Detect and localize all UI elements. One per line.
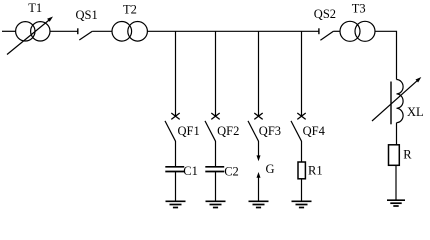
svg-text:R1: R1 (308, 163, 323, 177)
bus wire T2 to QS2 (147, 30, 319, 32)
disconnector QS2 (319, 28, 334, 40)
transformer T1 (7, 17, 53, 55)
breaker QF2 (205, 113, 220, 141)
spark gap G down arrow (257, 155, 261, 161)
wire: branch 1 drop (175, 31, 177, 116)
svg-text:XL: XL (407, 105, 424, 119)
resistor R1 (298, 162, 305, 179)
svg-text:G: G (266, 162, 275, 176)
wire: QF2 to C2 (215, 141, 217, 167)
breaker QF1 (165, 113, 180, 141)
spark gap G up arrow (257, 172, 261, 178)
transformer T3 (340, 21, 375, 41)
transformer T2 (112, 22, 147, 42)
wire: QS2 to T3 (333, 30, 340, 32)
wire: R1 to ground (301, 179, 303, 201)
ground (branch 3) (249, 201, 269, 207)
wire: XL to R (396, 123, 398, 145)
wire: C1 to ground (175, 172, 177, 201)
wire: branch 4 drop (301, 31, 303, 116)
svg-text:T3: T3 (352, 2, 366, 16)
ground (branch 2) (206, 201, 226, 207)
svg-text:C1: C1 (183, 164, 198, 178)
ground (right) (387, 200, 405, 206)
svg-text:QF4: QF4 (303, 124, 326, 138)
ground (branch 4) (292, 201, 312, 207)
capacitor C2 (205, 167, 224, 172)
svg-text:QF1: QF1 (178, 124, 200, 138)
wire: T1 to QS1 (50, 30, 78, 32)
breaker QF4 (291, 113, 306, 141)
wire: C2 to ground (215, 172, 217, 201)
ground (branch 1) (166, 201, 186, 207)
svg-text:QF2: QF2 (217, 124, 239, 138)
wire: QS1 to T2 (92, 30, 112, 32)
capacitor C1 (165, 167, 184, 172)
reactor XL (372, 77, 421, 124)
wire: T3 to right corner down to XL (375, 31, 397, 79)
svg-text:C2: C2 (224, 164, 239, 178)
svg-text:QS2: QS2 (314, 7, 336, 21)
resistor R (389, 145, 400, 166)
wire: QF1 to C1 (175, 141, 177, 167)
wire: branch 3 drop (258, 31, 260, 116)
svg-text:R: R (403, 148, 412, 162)
wire: branch 2 drop (215, 31, 217, 116)
wire: QF3 to gap (258, 141, 260, 156)
svg-text:QF3: QF3 (259, 124, 281, 138)
svg-text:T2: T2 (123, 3, 137, 17)
wire: left lead into T1 (2, 30, 16, 32)
breaker QF3 (248, 113, 263, 141)
wire: QF4 to R1 (301, 141, 303, 162)
wire: gap to ground (258, 178, 260, 201)
svg-text:T1: T1 (28, 1, 42, 15)
svg-text:QS1: QS1 (76, 8, 98, 22)
wire: R to ground (395, 165, 397, 199)
disconnector QS1 (78, 28, 93, 40)
